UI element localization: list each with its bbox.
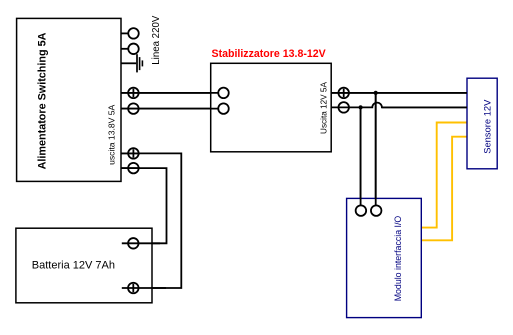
svg-text:Linea 220V: Linea 220V bbox=[151, 15, 162, 65]
svg-text:Uscita 12V 5A: Uscita 12V 5A bbox=[320, 82, 329, 134]
svg-text:Batteria 12V 7Ah: Batteria 12V 7Ah bbox=[32, 260, 115, 272]
svg-text:Alimentatore Switching 5A: Alimentatore Switching 5A bbox=[37, 32, 49, 169]
svg-text:Modulo interfaccia I/O: Modulo interfaccia I/O bbox=[393, 216, 403, 302]
svg-text:Stabilizzatore 13.8-12V: Stabilizzatore 13.8-12V bbox=[212, 48, 326, 60]
svg-text:uscita 13.8V 5A: uscita 13.8V 5A bbox=[107, 104, 117, 164]
svg-text:Sensore 12V: Sensore 12V bbox=[482, 99, 493, 154]
